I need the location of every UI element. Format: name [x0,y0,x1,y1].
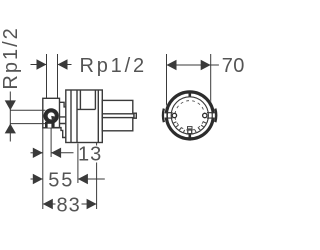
side view pipe boss circle [44,108,59,123]
dim line vertical [9,92,11,142]
dimension 13 [31,143,103,165]
arrow up [5,124,16,134]
svg-text:13: 13 [78,143,102,165]
extension line top [10,109,45,111]
cartridge housing [102,100,133,130]
right tail [51,152,73,154]
dimension 70 (top right) [167,54,245,106]
extension line L4 (x=96.6) [96,142,98,209]
front view [163,90,216,141]
extension line L2 (x=51.1) [50,128,52,157]
south clip box [188,130,192,134]
extension line bottom [10,123,45,125]
dim line [43,203,97,205]
thick ring [45,110,57,122]
bottom marker box [188,127,193,129]
spindle [102,114,134,118]
arrow down [5,100,16,110]
label 13 backing [79,146,100,163]
step bottom [55,128,66,138]
extension line left [166,54,168,106]
ring slit east [213,113,215,117]
left tail [31,64,47,66]
right tail [211,64,219,66]
arrow right [33,148,43,158]
svg-text:70: 70 [222,55,245,77]
right tail [58,64,72,66]
arrow left [167,60,177,70]
svg-text:Rp1/2: Rp1/2 [80,55,147,77]
extension line left [46,54,48,98]
arrow right [33,174,43,184]
east ear lug [214,109,217,123]
ticks lower [173,122,206,133]
arrow left [43,199,53,209]
boss housing [43,98,60,128]
arrow right [87,199,97,209]
left tail [31,178,43,180]
inner wedge [51,116,55,120]
left tail [31,152,43,154]
right tail [78,178,105,180]
inner circle [171,97,208,134]
extension line L3 (x=77.9) [77,144,79,184]
extension line right [210,54,212,106]
ring slit west [164,113,166,117]
white disc [164,90,215,141]
svg-text:55: 55 [48,169,74,191]
spindle cap [134,113,136,118]
inner line 3 (flange) [97,90,99,143]
side view valve body [43,90,137,143]
inner line 1 [70,90,72,143]
channel west lines [165,113,173,118]
dimension 83 [43,194,97,216]
outer ring [166,92,213,139]
channel east lines [207,113,215,118]
arrow right [201,60,211,70]
white core [44,108,59,123]
dimension 55 [31,169,105,191]
arrow right [37,59,47,69]
top box [77,90,95,109]
dashed circle [175,101,205,131]
svg-text:83: 83 [57,194,81,216]
main body [66,90,103,143]
svg-text:Rp1/2: Rp1/2 [0,26,22,89]
label 83 backing [56,196,82,213]
dimension Rp1/2 horizontal (top) [31,54,147,98]
inner line 2 [76,90,78,143]
dimension Rp1/2 vertical (left) [0,26,46,141]
north stem [189,91,192,97]
dim line [167,64,211,66]
arrow left [51,148,61,158]
south stem [189,133,192,140]
arrow left [58,59,68,69]
tab below boss [45,122,55,128]
clip west [172,113,176,117]
nipple line [60,117,66,124]
west ear lug [162,109,165,123]
extension line L1 (x=42.8) [42,128,44,209]
arrow left [78,174,88,184]
step top [60,102,66,107]
inner circle [47,112,55,120]
extension line right [57,54,59,98]
clip east [203,113,207,117]
